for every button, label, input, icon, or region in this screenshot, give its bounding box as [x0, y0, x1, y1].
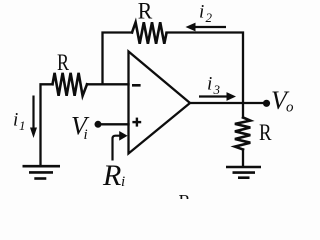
wire feedback left vertical and top lead [103, 33, 133, 85]
op-amp minus pin sign [132, 84, 141, 87]
wire left input horizontal (left lead) [41, 84, 53, 165]
resistor R (left input) [53, 73, 88, 96]
ground (right) [226, 167, 261, 178]
svg-text:R: R [57, 50, 70, 75]
svg-text:1: 1 [19, 118, 26, 133]
svg-text:R: R [179, 191, 191, 199]
svg-text:i: i [199, 2, 204, 23]
current arrow i3 [199, 92, 236, 101]
svg-text:i: i [121, 174, 125, 190]
input resistance arrow Ri [113, 131, 128, 161]
wire top right to right vertical down to resistor [167, 33, 244, 118]
svg-text:R: R [259, 120, 272, 145]
svg-text:i: i [84, 127, 88, 143]
wire resistor to op-amp minus input [87, 83, 129, 85]
wire resistor to ground right [242, 150, 244, 167]
resistor R (output load, vertical) [235, 118, 250, 150]
node Vi dot [95, 121, 102, 128]
svg-text:2: 2 [206, 10, 213, 25]
ground (left) [23, 166, 61, 178]
svg-text:i: i [13, 110, 18, 131]
svg-text:R: R [102, 159, 121, 192]
svg-text:i: i [207, 74, 212, 95]
node Vo dot [263, 100, 270, 107]
svg-text:R: R [138, 0, 153, 24]
op-amp U1 triangle [129, 52, 191, 154]
wire plus input [98, 123, 129, 125]
current arrow i1 [30, 96, 37, 139]
svg-text:3: 3 [213, 82, 221, 97]
resistor R (top feedback) [132, 22, 167, 43]
svg-text:o: o [286, 100, 294, 116]
op-amp plus pin sign [132, 118, 141, 127]
wire output [190, 102, 266, 104]
current arrow i2 [186, 23, 227, 32]
